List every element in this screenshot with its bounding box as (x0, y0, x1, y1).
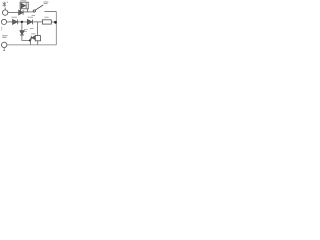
node B (junction dot on right bus) (54, 21, 57, 24)
wire (branch down from node A) (21, 23, 23, 31)
resistor R1 box (parallel, top) (20, 2, 28, 12)
wire (37, 41, 39, 45)
wire (23, 11, 33, 13)
wire (22, 35, 30, 40)
label VD1 above box (20, 0, 26, 2)
label VD4 (24, 30, 28, 32)
label XS text bottom-left (2, 36, 8, 38)
diode VD5 (horizontal) (31, 36, 35, 40)
wire (branch down from mid wire) (37, 22, 39, 36)
wire (33, 21, 43, 23)
label VD3 (28, 16, 33, 18)
wire (bottom bus) (7, 44, 56, 46)
label SA1 (43, 2, 48, 4)
label small left-mid (1, 28, 2, 30)
connector XP3 pin stem (3, 48, 5, 51)
connector XP3 (bottom circle) (1, 42, 6, 47)
rectifier VD6 diode inside box (21, 3, 26, 8)
component U1 box (35, 36, 40, 41)
wire (44, 11, 56, 13)
node A (junction dot) (21, 21, 24, 24)
connector XP1 (top input circle) (2, 10, 7, 15)
label R2 (44, 16, 48, 18)
wire (29, 38, 31, 45)
diode VD3 (27, 20, 32, 25)
label small near branch (30, 27, 33, 29)
connector XP1 pin stem (4, 7, 6, 9)
label VD2 (11, 16, 17, 18)
diode VD2 (13, 20, 18, 25)
label ~220V (plug text top-left) (3, 2, 8, 7)
diode VD4 (vertical, cathode down) (20, 31, 24, 35)
wire (18, 21, 27, 23)
switch SA1 blade (35, 5, 43, 10)
node C (junction dot) (29, 39, 31, 41)
label under wire (32, 15, 36, 17)
diode VD1 (on top wire) (19, 10, 23, 15)
label VD5 (31, 33, 35, 35)
wire (51, 21, 55, 23)
resistor R2 box (42, 20, 51, 24)
wire (7, 21, 13, 23)
wire (right bus) (55, 12, 57, 45)
switch SA1 pivot (33, 10, 35, 12)
wire (8, 12, 19, 14)
connector XP2 (middle input circle) (1, 19, 6, 24)
